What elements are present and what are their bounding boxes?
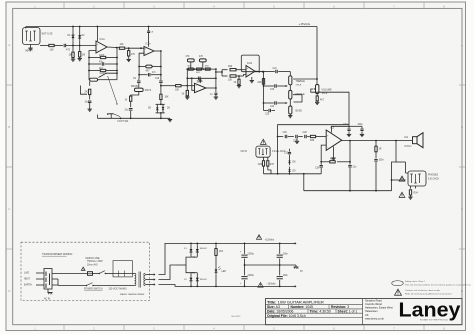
label mains neutral bbox=[24, 279, 44, 281]
resistor R20 CD mix bbox=[267, 157, 275, 170]
svg-text:R30: R30 bbox=[310, 140, 315, 142]
svg-text:Halesowen, Estate West: Halesowen, Estate West bbox=[365, 306, 393, 310]
label power switch bbox=[84, 289, 103, 291]
svg-text:Sheet: 1 of 1: Sheet: 1 of 1 bbox=[338, 309, 358, 313]
ground C3 bbox=[88, 108, 92, 112]
wire neutral to switch bbox=[52, 279, 87, 286]
resistor R11 to ground bbox=[182, 86, 189, 96]
wire U1B output bbox=[154, 50, 162, 52]
ground phones bbox=[408, 195, 412, 199]
wire U2A output bbox=[206, 87, 217, 89]
wire tone left vertical bbox=[186, 69, 188, 86]
svg-text:INPUT: INPUT bbox=[25, 49, 33, 53]
resistor R14 vol lower bbox=[316, 94, 325, 102]
connector mains filter box bbox=[113, 261, 132, 277]
switch SW1 channel bbox=[107, 76, 129, 123]
resistor R23 tone bus bbox=[258, 79, 265, 85]
wire U3 feedback bbox=[349, 141, 351, 163]
speaker LS1 bbox=[413, 133, 424, 148]
wire secondary 3 bbox=[148, 284, 155, 286]
svg-text:4K7: 4K7 bbox=[320, 100, 325, 102]
wire U2B feedback box bbox=[241, 55, 260, 73]
svg-text:Laney: Laney bbox=[399, 300, 462, 322]
resistor R19 CD mix bbox=[258, 157, 265, 174]
ground C19 bbox=[360, 133, 364, 136]
capacitor C4 ch2 bbox=[133, 78, 141, 88]
wire middle loop bbox=[290, 95, 302, 106]
op-amp U3 power amp TDA2030 bbox=[326, 126, 342, 151]
svg-text:Title: 10W GUITAR AMPLIFIER: Title: 10W GUITAR AMPLIFIER bbox=[267, 300, 324, 305]
label fuse rating bbox=[86, 257, 104, 267]
wire to tone stack bbox=[161, 85, 175, 87]
title block address bbox=[365, 298, 393, 320]
op-amp U1B bbox=[144, 43, 154, 56]
label J1 INPUT bbox=[25, 32, 53, 53]
wire feedback to inverting bbox=[320, 145, 329, 163]
svg-text:C10: C10 bbox=[155, 78, 160, 80]
wire input to R1 bbox=[40, 45, 49, 47]
capacitor C28 U1B supply bbox=[147, 26, 154, 47]
svg-text:IC1a: IC1a bbox=[100, 38, 106, 41]
svg-text:22K: 22K bbox=[258, 82, 263, 84]
label mains voltage bbox=[109, 287, 128, 290]
capacitor C3 bbox=[85, 95, 92, 108]
diode D9 rectifier bbox=[184, 273, 194, 287]
warning heatsink -V bbox=[258, 283, 276, 288]
ground R22 bbox=[237, 84, 241, 87]
switch SW2b neutral bbox=[86, 283, 135, 287]
svg-text:47K A: 47K A bbox=[296, 83, 302, 86]
svg-text:1N4002: 1N4002 bbox=[200, 248, 208, 250]
svg-text:This unit must be earthed. Do: This unit must be earthed. Do not remove… bbox=[405, 284, 472, 287]
svg-text:47K: 47K bbox=[186, 56, 191, 58]
svg-text:+15Volts: +15Volts bbox=[299, 22, 311, 26]
warning fuse bbox=[81, 267, 85, 270]
potentiometer VR8 VOLUME bbox=[313, 79, 332, 95]
ground PA in bias bbox=[295, 138, 299, 143]
resistor R21 LED dropper bbox=[215, 243, 224, 255]
svg-text:VOLUME: VOLUME bbox=[322, 89, 333, 92]
capacitor C25 filter bbox=[240, 265, 255, 286]
resistor Rt3 tone bbox=[205, 66, 210, 71]
svg-text:Coombs Wood: Coombs Wood bbox=[365, 302, 382, 306]
svg-text:47K: 47K bbox=[131, 54, 136, 56]
wire clipping to bus bbox=[160, 113, 162, 118]
wire fuse to switch bbox=[93, 273, 100, 275]
wire live to fuse bbox=[52, 273, 87, 275]
capacitor C2 feedback bbox=[89, 62, 117, 66]
ground U3 pin bbox=[331, 157, 335, 160]
wire stage1 to stage2 bbox=[81, 80, 118, 95]
label transformer bbox=[120, 293, 145, 296]
wire secondary 1 bbox=[148, 274, 155, 276]
label J2 phones bbox=[428, 174, 439, 181]
label J3 CD in bbox=[241, 150, 286, 153]
svg-text:A: A bbox=[461, 43, 463, 47]
diode D8a mix bbox=[288, 167, 296, 174]
svg-text:50K B: 50K B bbox=[145, 90, 152, 92]
ground channel bus bbox=[168, 118, 172, 121]
wire CD mix bus bbox=[264, 170, 322, 175]
fuse F1 bbox=[88, 272, 93, 276]
svg-text:B: B bbox=[8, 125, 10, 129]
title block text fields bbox=[267, 300, 357, 318]
capacitor C6 bbox=[125, 101, 133, 118]
power supply dashed enclosure bbox=[21, 242, 150, 300]
svg-text:1N4002: 1N4002 bbox=[200, 279, 208, 281]
wire R1 to C1 bbox=[54, 45, 63, 47]
svg-text:8 Ohm: 8 Ohm bbox=[405, 146, 412, 148]
wire volume wiper to PA bbox=[277, 89, 349, 175]
diode D7 rectifier bbox=[184, 243, 194, 257]
svg-text:Time: 4:30:50: Time: 4:30:50 bbox=[310, 309, 331, 313]
warning phones level bbox=[399, 176, 405, 181]
wire tone left bus bbox=[263, 72, 265, 111]
potentiometer VR1 GAIN bbox=[89, 72, 106, 81]
svg-text:C23: C23 bbox=[270, 89, 275, 91]
capacitor C1 input coupling bbox=[64, 44, 71, 52]
capacitor C29 U1B feedback bbox=[139, 72, 162, 76]
svg-text:10K: 10K bbox=[165, 97, 170, 99]
svg-text:Steeples Road: Steeples Road bbox=[365, 298, 382, 302]
resistor R9b ch2 bbox=[160, 85, 169, 105]
svg-text:FOOT SW: FOOT SW bbox=[118, 121, 130, 123]
wire speaker to phones bbox=[391, 141, 408, 191]
svg-text:100n: 100n bbox=[283, 275, 289, 277]
svg-text:BASS: BASS bbox=[296, 110, 303, 113]
note recycling bbox=[392, 280, 472, 286]
resistor R16 feedback bbox=[330, 159, 350, 163]
svg-text:-15Volts: -15Volts bbox=[267, 283, 277, 286]
connector mains IEC inlet bbox=[44, 269, 52, 290]
svg-text:100K: 100K bbox=[99, 55, 105, 57]
ground U2B pin bbox=[250, 77, 254, 83]
resistor R9 bbox=[125, 96, 132, 101]
svg-text:10K: 10K bbox=[175, 89, 180, 91]
svg-text:H O M E T O T H E P R O U D: H O M E T O T H E P R O U D bbox=[420, 320, 449, 322]
svg-text:230 VOLT MAINS: 230 VOLT MAINS bbox=[109, 287, 128, 290]
svg-text:1K: 1K bbox=[182, 94, 185, 96]
wire bottom return bus bbox=[303, 173, 392, 192]
resistor R17 zobel bbox=[375, 141, 382, 152]
capacitor C14 mid tap bbox=[264, 101, 288, 108]
rail +V bbox=[189, 243, 292, 245]
wire tone top rail bbox=[186, 68, 216, 70]
svg-text:LED: LED bbox=[222, 271, 227, 273]
resistor R15 PA in bbox=[310, 135, 326, 142]
diode D3 clipping bbox=[148, 104, 165, 113]
svg-text:472: 472 bbox=[66, 49, 71, 52]
capacitor C7 tone bbox=[197, 77, 202, 84]
wire VR2 to R9 bbox=[131, 92, 139, 97]
svg-text:47K: 47K bbox=[199, 56, 204, 58]
op-amp U2B bbox=[246, 62, 255, 77]
label speaker 8ohm bbox=[405, 146, 412, 148]
svg-text:Safety class: Class I: Safety class: Class I bbox=[405, 280, 425, 283]
wire R7 to U1B bbox=[125, 47, 144, 49]
capacitor C24 filter bbox=[277, 243, 289, 265]
svg-text:Caution: risk of electric shoc: Caution: risk of electric shock inside bbox=[405, 289, 441, 292]
wire +15V rail drop to volume pot bbox=[316, 27, 318, 80]
svg-text:C25: C25 bbox=[265, 114, 270, 116]
svg-text:Refer all servicing to qualifi: Refer all servicing to qualified service… bbox=[405, 293, 452, 296]
wire R10 to U2A bbox=[181, 85, 195, 87]
wire U2B out to tone bus bbox=[263, 71, 265, 73]
op-amp U1A bbox=[96, 38, 107, 53]
svg-text:C30: C30 bbox=[315, 168, 320, 170]
svg-text:10K: 10K bbox=[228, 79, 233, 81]
capacitor C13 treble tap bbox=[264, 84, 288, 91]
svg-text:GAIN: GAIN bbox=[100, 72, 106, 75]
wire to treble pot bbox=[264, 71, 275, 73]
wire U3 output bbox=[342, 140, 413, 142]
svg-text:10K: 10K bbox=[120, 44, 125, 46]
label speaker wiring bbox=[404, 137, 409, 139]
transformer T1 bbox=[132, 272, 148, 288]
wire tone cap row bbox=[186, 77, 216, 79]
capacitor C21 zobel bbox=[374, 152, 384, 191]
svg-text:Original File: 10x5 3.Sch: Original File: 10x5 3.Sch bbox=[267, 314, 306, 318]
ground C10 bbox=[214, 96, 218, 99]
capacitor C23 filter bbox=[240, 243, 255, 265]
wire to U1B input bbox=[118, 47, 121, 49]
resistor R8a output load bbox=[128, 47, 136, 58]
capacitor C31 feedback bbox=[348, 162, 357, 191]
capacitor C22 mix bbox=[284, 149, 291, 155]
svg-text:C24: C24 bbox=[270, 106, 275, 108]
svg-text:CD IN: CD IN bbox=[241, 150, 248, 153]
warning CD input bbox=[260, 139, 266, 144]
LED DS1 power indicator bbox=[215, 255, 227, 286]
potentiometer VR2 drive bbox=[131, 86, 152, 92]
svg-text:2200u: 2200u bbox=[248, 254, 255, 256]
wire PA input row bbox=[277, 136, 284, 138]
diode D10 rectifier bbox=[194, 272, 208, 286]
resistor R7 bbox=[119, 44, 124, 49]
node -15Volts out bbox=[292, 286, 296, 288]
capacitor C16 PA in bbox=[293, 135, 303, 143]
diode D4 clipping bbox=[156, 104, 171, 114]
capacitor C17 PA in bbox=[303, 132, 310, 138]
svg-text:10K: 10K bbox=[50, 49, 55, 52]
wire treble out to volume bbox=[293, 78, 318, 80]
wire U1A output bbox=[107, 47, 119, 49]
diode D1 input clamp bbox=[68, 27, 75, 46]
capacitor C10 output bbox=[210, 88, 217, 96]
potentiometer VR5 TREBLE bbox=[289, 76, 306, 87]
wire U3 bottom pin bbox=[333, 147, 335, 158]
ground 0V rail bbox=[294, 265, 304, 273]
svg-text:TRANSFORMER WIRING: TRANSFORMER WIRING bbox=[42, 252, 72, 256]
svg-text:LA-10W/3: LA-10W/3 bbox=[231, 315, 241, 318]
wire U2B output bbox=[255, 71, 264, 73]
node +15Volts label bbox=[299, 22, 311, 26]
Laney logo bbox=[399, 300, 462, 322]
resistor R1 bbox=[49, 44, 54, 51]
svg-text:100n: 100n bbox=[283, 254, 289, 256]
svg-text:6.35 JACK: 6.35 JACK bbox=[428, 178, 439, 181]
wire U1A power pin bbox=[96, 27, 98, 42]
capacitor C15 PA in bbox=[283, 132, 294, 138]
wire U2A to U2B bbox=[215, 70, 223, 76]
wire secondary 2 bbox=[148, 279, 155, 281]
resistor R5 feedback bbox=[89, 68, 117, 72]
svg-text:1R: 1R bbox=[379, 149, 382, 151]
svg-text:4K7: 4K7 bbox=[146, 71, 151, 73]
svg-text:R37: R37 bbox=[270, 164, 275, 166]
svg-text:C26: C26 bbox=[283, 132, 288, 134]
+15V supply rail wire bbox=[26, 26, 317, 29]
capacitor C19 supply decoupling bbox=[358, 124, 364, 133]
wire sec2 centre tap bbox=[159, 265, 177, 280]
diode D8 rectifier bbox=[194, 243, 208, 257]
svg-text:1K: 1K bbox=[125, 100, 128, 102]
svg-text:AC IN: AC IN bbox=[44, 298, 50, 301]
ground R3 bbox=[78, 57, 82, 61]
svg-text:NEUT: NEUT bbox=[24, 279, 31, 281]
ground R11 bbox=[185, 96, 189, 99]
wire U3 supply pin bbox=[332, 125, 363, 132]
svg-text:0V: 0V bbox=[300, 271, 303, 273]
warning heatsink +V bbox=[256, 235, 261, 240]
resistor R22 U2B bias bbox=[234, 75, 241, 84]
svg-text:T500mA / 250V: T500mA / 250V bbox=[87, 260, 103, 263]
svg-text:1M: 1M bbox=[69, 55, 72, 57]
svg-text:1M: 1M bbox=[82, 55, 85, 57]
resistor R18 phones bbox=[409, 186, 418, 195]
svg-text:Halesowen: Halesowen bbox=[365, 309, 378, 313]
capacitor C20 input block bbox=[315, 162, 323, 174]
svg-text:100n: 100n bbox=[379, 160, 385, 162]
wire sec3 to rectifier bbox=[159, 285, 190, 287]
capacitor C12 treble bbox=[273, 68, 291, 76]
svg-text:4K7: 4K7 bbox=[99, 68, 104, 70]
resistor Rt2 tone bbox=[196, 68, 202, 74]
svg-text:100u: 100u bbox=[358, 124, 364, 126]
svg-text:LS1: LS1 bbox=[404, 137, 409, 139]
svg-text:DRIVE: DRIVE bbox=[131, 86, 138, 88]
ground input jack bbox=[28, 47, 32, 51]
wire U1A feedback vertical bbox=[116, 48, 118, 80]
potentiometer VR6 MIDDLE bbox=[289, 85, 305, 99]
rail 0V bbox=[244, 264, 296, 266]
capacitor C18 supply decoupling bbox=[343, 124, 351, 133]
svg-text:www.laney.co.uk: www.laney.co.uk bbox=[365, 316, 385, 320]
potentiometer VR7 BASS bbox=[289, 106, 303, 114]
potentiometer VR9 U1B feedback bbox=[139, 65, 162, 72]
svg-text:A: A bbox=[8, 43, 10, 47]
potentiometer VR4 presence bbox=[199, 56, 206, 69]
title block bbox=[266, 299, 463, 325]
resistor R2 bias bbox=[69, 46, 75, 58]
connector J2 phones jack bbox=[408, 171, 426, 189]
ground C18 bbox=[347, 133, 351, 136]
svg-text:UK: UK bbox=[365, 313, 369, 317]
svg-text:B: B bbox=[461, 125, 463, 129]
svg-text:TREBLE: TREBLE bbox=[296, 80, 306, 83]
switch SW2 power bbox=[99, 271, 113, 274]
svg-text:SKT 6.35: SKT 6.35 bbox=[42, 32, 53, 36]
wire U1A inverting input bbox=[88, 51, 96, 79]
capacitor C5 ch2 bbox=[155, 51, 163, 86]
resistor R4 feedback bbox=[89, 55, 117, 59]
wire tone right vertical bbox=[215, 69, 217, 88]
svg-text:R20: R20 bbox=[228, 66, 233, 68]
label PSU heading bbox=[42, 252, 72, 256]
svg-text:2200u: 2200u bbox=[248, 275, 255, 277]
label mains earth bbox=[24, 284, 44, 287]
resistor Rt1 tone bbox=[188, 66, 194, 71]
potentiometer VR3 treble-cut bbox=[186, 56, 195, 69]
wire rectifier AC stubs bbox=[176, 257, 194, 273]
wire sec1 to rectifier bbox=[159, 243, 190, 274]
svg-text:LIVE: LIVE bbox=[24, 273, 29, 275]
svg-text:MAINS TRANSFORMER: MAINS TRANSFORMER bbox=[120, 293, 145, 296]
svg-text:C28: C28 bbox=[303, 132, 308, 134]
wire C1 to op-amp U1A input bbox=[66, 45, 96, 47]
label drawing number bbox=[231, 315, 241, 318]
svg-text:PHONES: PHONES bbox=[428, 174, 439, 177]
svg-text:IC2b: IC2b bbox=[247, 62, 253, 65]
ground R8a bbox=[127, 59, 131, 62]
diode D7a mix bbox=[288, 155, 296, 166]
svg-text:2K2: 2K2 bbox=[85, 92, 90, 94]
wire U2A inverting bbox=[191, 77, 195, 90]
warning phones 2 bbox=[399, 192, 405, 197]
capacitor C26 filter bbox=[277, 265, 289, 286]
label mains live bbox=[24, 273, 44, 275]
connector J3 CD input jack bbox=[256, 146, 270, 157]
ground VR8 bbox=[315, 101, 319, 105]
ground R2 bbox=[71, 58, 75, 62]
svg-text:1K: 1K bbox=[234, 82, 237, 84]
wire VR1 to R6 chain bbox=[89, 81, 91, 85]
resistor R3 bias bbox=[79, 46, 86, 58]
connector J1 input jack bbox=[23, 28, 41, 47]
svg-text:C21: C21 bbox=[273, 68, 278, 70]
resistor R6 bbox=[85, 89, 91, 94]
svg-text:100n: 100n bbox=[343, 124, 349, 126]
resistor R10 tone in bbox=[175, 85, 181, 92]
svg-text:EARTH: EARTH bbox=[24, 284, 32, 287]
svg-text:+15Volts: +15Volts bbox=[265, 239, 275, 242]
earth ground mains bbox=[44, 289, 53, 301]
svg-text:2K2: 2K2 bbox=[219, 251, 224, 253]
rail -V bbox=[189, 286, 292, 288]
svg-text:Date: 16/05/2006: Date: 16/05/2006 bbox=[267, 309, 294, 313]
svg-text:R36: R36 bbox=[258, 164, 263, 166]
wire U1B feedback box bbox=[138, 53, 144, 77]
svg-text:MAINS FUSE: MAINS FUSE bbox=[86, 257, 101, 260]
note warning bbox=[395, 289, 452, 295]
svg-text:20mm A/S: 20mm A/S bbox=[87, 263, 98, 266]
wire channel bus bbox=[98, 115, 171, 120]
svg-text:R34: R34 bbox=[414, 193, 419, 195]
wire VR1 wiper bbox=[99, 73, 118, 77]
capacitor C15b bass tap bbox=[264, 109, 276, 116]
diode D2 input clamp bbox=[78, 27, 85, 46]
node +15Volts out bbox=[265, 239, 297, 245]
resistor R13 bbox=[222, 75, 246, 82]
svg-text:C32: C32 bbox=[284, 153, 289, 155]
op-amp U2A bbox=[195, 80, 207, 93]
ground BASS pot bbox=[288, 114, 292, 118]
resistor R12 bbox=[222, 66, 246, 71]
